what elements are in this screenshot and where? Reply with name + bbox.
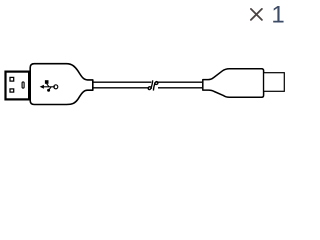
- USB-A shell slot: [22, 82, 24, 88]
- connector body USB-A (overmold with taper): [30, 64, 93, 105]
- cable break mark (right hook): [153, 82, 158, 91]
- micro-USB metal tip: [264, 73, 285, 92]
- quantity label x1: [251, 2, 285, 29]
- wire: USB cable left segment: [93, 81, 151, 83]
- USB-A contact hole (bottom): [10, 89, 14, 92]
- USB trident icon: [40, 80, 58, 92]
- USB-A contact hole (top): [10, 77, 14, 81]
- wire: USB cable right segment: [156, 81, 202, 83]
- connector body micro-USB (taper + body): [203, 69, 264, 98]
- cable break mark (left hook): [148, 80, 153, 89]
- USB-A metal shell: [6, 72, 30, 100]
- svg-text:1: 1: [271, 2, 284, 29]
